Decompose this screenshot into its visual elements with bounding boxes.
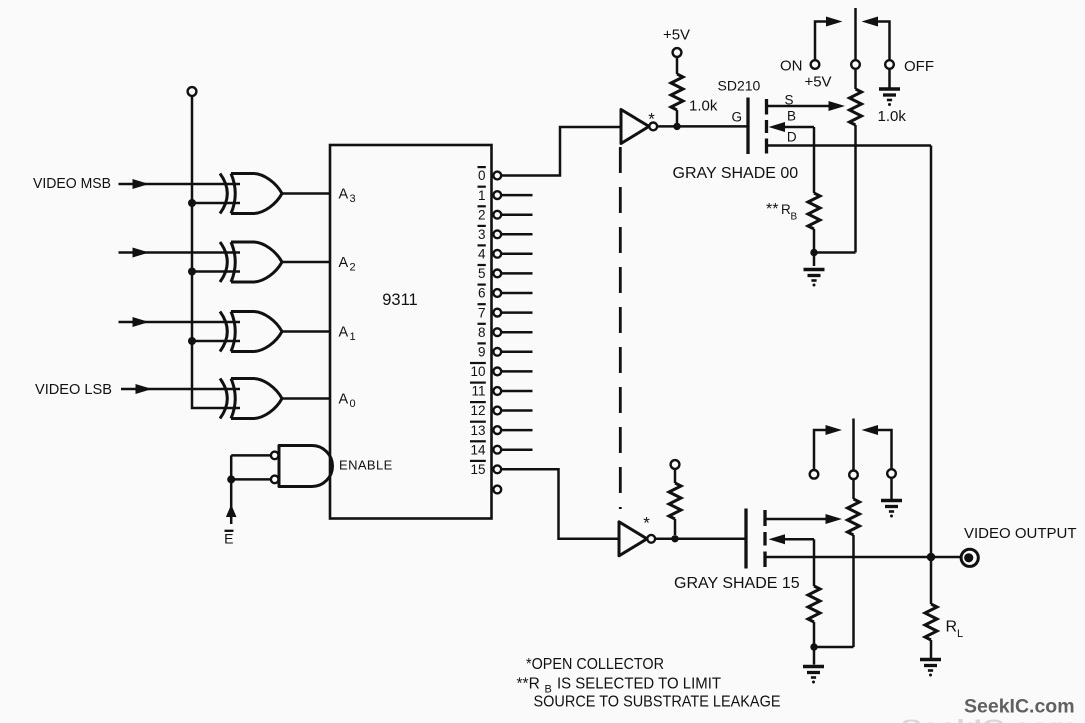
svg-text:2: 2 xyxy=(350,262,356,274)
svg-text:SOURCE TO SUBSTRATE LEAKAGE: SOURCE TO SUBSTRATE LEAKAGE xyxy=(534,694,781,711)
svg-text:SeekIC.com: SeekIC.com xyxy=(964,696,1075,718)
svg-text:ON: ON xyxy=(780,58,803,75)
svg-text:13: 13 xyxy=(470,423,485,438)
svg-text:5: 5 xyxy=(478,266,486,281)
svg-text:1.0k: 1.0k xyxy=(689,98,718,115)
svg-text:A: A xyxy=(339,187,349,203)
svg-text:3: 3 xyxy=(478,227,486,242)
svg-text:14: 14 xyxy=(470,442,486,457)
svg-text:6: 6 xyxy=(478,286,486,301)
svg-text:VIDEO MSB: VIDEO MSB xyxy=(33,175,111,192)
svg-text:9: 9 xyxy=(478,345,486,360)
svg-text:*: * xyxy=(648,110,655,129)
svg-text:IS SELECTED TO LIMIT: IS SELECTED TO LIMIT xyxy=(557,676,721,693)
svg-text:SeekIC.com: SeekIC.com xyxy=(901,716,1077,723)
svg-text:**R: **R xyxy=(517,676,540,693)
svg-text:A: A xyxy=(339,255,349,271)
svg-text:15: 15 xyxy=(470,462,485,477)
svg-text:10: 10 xyxy=(470,364,485,379)
svg-text:GRAY SHADE 00: GRAY SHADE 00 xyxy=(673,165,799,182)
svg-text:4: 4 xyxy=(478,247,486,262)
svg-text:D: D xyxy=(787,129,797,144)
svg-text:1: 1 xyxy=(478,188,486,203)
svg-text:SD210: SD210 xyxy=(718,78,761,94)
svg-text:**: ** xyxy=(766,201,778,218)
svg-text:L: L xyxy=(957,628,963,640)
svg-text:OFF: OFF xyxy=(904,58,934,75)
svg-text:B: B xyxy=(791,212,798,223)
svg-text:0: 0 xyxy=(350,398,356,410)
svg-text:9311: 9311 xyxy=(382,291,417,309)
svg-text:ENABLE: ENABLE xyxy=(339,458,393,473)
svg-text:GRAY SHADE 15: GRAY SHADE 15 xyxy=(674,575,800,592)
svg-text:+5V: +5V xyxy=(804,74,831,91)
svg-text:VIDEO LSB: VIDEO LSB xyxy=(35,381,112,398)
svg-text:2: 2 xyxy=(478,207,486,222)
svg-text:7: 7 xyxy=(478,305,486,320)
svg-text:R: R xyxy=(946,619,958,636)
svg-text:12: 12 xyxy=(470,403,485,418)
svg-text:VIDEO OUTPUT: VIDEO OUTPUT xyxy=(964,525,1077,542)
svg-text:+5V: +5V xyxy=(663,27,690,44)
svg-text:1: 1 xyxy=(350,331,356,343)
svg-text:A: A xyxy=(339,325,349,341)
svg-text:B: B xyxy=(787,109,796,124)
svg-text:11: 11 xyxy=(471,384,485,399)
svg-text:3: 3 xyxy=(350,193,356,205)
svg-text:S: S xyxy=(784,93,793,108)
svg-text:A: A xyxy=(339,392,349,408)
svg-text:*OPEN COLLECTOR: *OPEN COLLECTOR xyxy=(526,656,664,673)
svg-text:R: R xyxy=(781,202,791,217)
svg-text:0: 0 xyxy=(478,168,486,183)
svg-text:E: E xyxy=(224,531,233,547)
svg-text:G: G xyxy=(731,110,742,125)
svg-text:1.0k: 1.0k xyxy=(878,108,907,125)
svg-text:8: 8 xyxy=(478,325,486,340)
svg-text:*: * xyxy=(643,514,650,533)
